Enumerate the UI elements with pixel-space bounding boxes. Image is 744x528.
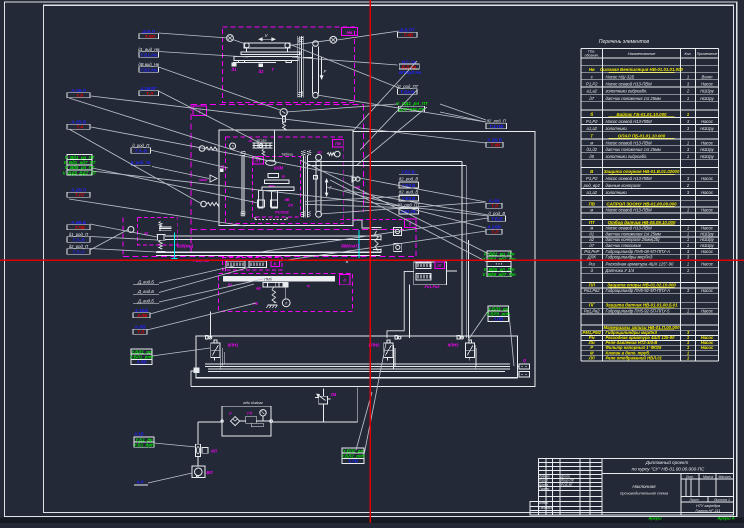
wire leader [360,90,417,150]
svg-text:1: 1 [687,237,689,242]
wire leader [356,392,372,450]
svg-text:дЗ: дЗ [288,204,293,208]
svg-text:д2: д2 [259,69,265,74]
svg-text:У.Б2.В,: У.Б2.В, [401,170,416,175]
crosshair horizontal [0,259,744,261]
svg-text:Л: Л [285,301,287,305]
svg-text:3.ЛВ: 3.ЛВ [493,317,504,322]
svg-text:Р1,Р2: Р1,Р2 [586,176,598,181]
base dashed bracket [255,219,287,221]
wire leader [154,443,196,447]
crosshair vertical [369,0,371,523]
svg-text:Таблиц: Таблиц [281,153,293,157]
svg-text:4.ЛВ: 4.ЛВ [136,313,148,318]
svg-text:Наименование: Наименование [628,51,656,56]
wire leader [69,199,245,226]
wire leader [344,190,488,215]
relay wires [387,271,414,338]
svg-text:Насос НШ-32Б: Насос НШ-32Б [606,74,635,79]
svg-text:Л4: Л4 [330,392,337,397]
svg-text:а2: а2 [589,237,594,242]
svg-text:б: б [590,112,593,117]
inner dashed separator [191,229,404,231]
svg-text:Т.Л: Т.Л [146,91,154,96]
svg-text:данные контроля: данные контроля [606,183,642,188]
svg-text:Аркуш А: Аркуш А [716,516,734,521]
svg-text:Насос: Насос [701,176,714,181]
mount circle [128,227,134,233]
svg-text:Б: Б [282,175,285,179]
label дВ.вид_Нв [138,62,159,72]
relay box Rk1 Rk2 [414,262,447,285]
cylinder blocks row [226,261,245,268]
svg-text:ПВ: ПВ [589,201,596,206]
svg-text:Т.4.ПВ: Т.4.ПВ [489,124,504,129]
svg-text:Т.Б1.Нв: Т.Б1.Нв [140,52,157,57]
rail mount dashed box [137,218,177,245]
svg-text:V_Вд5_вд7_Пт: V_Вд5_вд7_Пт [482,272,515,277]
ground hatch [268,304,278,306]
wire leader [159,266,234,283]
svg-text:датчик положения 1st 25мм: датчик положения 1st 25мм [606,231,661,236]
svg-text:Рв1,Рв2: Рв1,Рв2 [584,308,600,313]
svg-text:м: м [590,226,593,231]
wire leader [69,98,268,161]
svg-text:Ю: Ю [318,150,322,154]
relief valve L4 [315,389,337,422]
tag box d right [405,219,417,228]
junction icon 1 [394,228,402,236]
svg-text:д7: д7 [589,96,594,101]
tank outlet left step [191,371,196,387]
svg-text:Т.3–С: Т.3–С [72,249,85,254]
wire leader [159,67,281,110]
svg-text:Масшт.: Масшт. [719,475,732,479]
comb slide top [253,142,273,144]
label 4.1Б3/Г [139,86,159,96]
inner column pair left [241,155,243,216]
svg-text:ПЛ: ПЛ [589,282,596,287]
tank frame [196,336,518,378]
central unit dashed frame [226,137,344,224]
cylinder blocks dashed enclosure [223,258,283,271]
rail left bracket assembly [159,226,172,228]
svg-text:а1,а2: а1,а2 [587,126,598,131]
svg-text:1: 1 [687,308,689,313]
wire leader [353,61,417,131]
svg-text:Рк1,Рк2: Рк1,Рк2 [425,284,441,289]
label А.ЛВ [486,199,502,209]
svg-text:Гидроцилиндр ПН5-08-5П-ППУ-А: Гидроцилиндр ПН5-08-5П-ППУ-А [606,249,671,254]
svg-text:Насос: Насос [701,140,714,145]
wire leader [300,160,489,254]
svg-text:Рш: Рш [589,262,596,267]
svg-text:1: 1 [687,226,689,231]
svg-text:Отбор датчик НВ-05.09.10.000: Отбор датчик НВ-05.09.10.000 [608,220,676,225]
drop wire 1 [210,312,212,338]
title block [530,459,734,516]
svg-text:Кол.: Кол. [684,52,691,56]
svg-text:ЛЛ: ЛЛ [588,355,595,360]
svg-text:Т.Л: Т.Л [76,93,84,98]
wire leader [159,52,249,58]
svg-text:Л: Л [231,145,233,149]
wire leader [147,303,256,330]
svg-text:РСЛСЕ: РСЛСЕ [275,210,289,215]
wire leader [92,168,258,203]
dashed stub to tag d [340,219,405,221]
svg-text:ОПАЛ ПБ-01.01.10.000: ОПАЛ ПБ-01.01.10.000 [618,133,666,138]
svg-text:Защита опоры НВ-01.02.10.000: Защита опоры НВ-01.02.10.000 [607,282,676,287]
svg-text:Насос: Насос [701,207,714,212]
svg-text:мат: мат [199,178,208,182]
sliding platform (bright) [223,276,334,281]
label А.ЛВ [133,325,147,335]
svg-text:датчик положения 1st 25мм: датчик положения 1st 25мм [606,96,661,101]
svg-text:дВ: дВ [284,198,289,202]
svg-text:аВ: аВ [256,286,261,290]
crank circle left [227,35,234,42]
svg-text:Примечание: Примечание [697,52,718,56]
svg-text:м: м [590,140,593,145]
svg-text:Г: Г [272,67,275,72]
valve B [268,174,279,178]
svg-text:Насос: Насос [701,345,714,350]
svg-text:Наклонная: Наклонная [632,484,656,489]
svg-text:3.ЛВ: 3.ЛВ [137,360,148,365]
svg-text:Т.Б4.В: Т.Б4.В [400,89,415,94]
label У.Б1_др [134,437,155,448]
label А.1Б.П [67,88,90,98]
svg-text:НТУ кафедра: НТУ кафедра [696,504,720,508]
svg-text:1: 1 [687,96,689,101]
svg-text:1: 1 [687,243,689,248]
wire leader [305,197,400,202]
drop link [285,287,287,299]
wire leader [509,314,514,366]
stroke arrow F [326,179,328,196]
damper ellipse [266,160,276,165]
svg-text:1: 1 [687,268,689,273]
wire leader [90,237,158,241]
svg-text:НШ3ру: НШ3ру [700,237,714,242]
svg-text:НШ3ру: НШ3ру [700,126,714,131]
wire leader [159,91,261,143]
svg-text:Гидроцилиндр ПН5-92-5П-ППУ-А: Гидроцилиндр ПН5-92-5П-ППУ-А [606,288,671,293]
svg-text:1: 1 [687,140,689,145]
label stack row У.Б3.В [399,195,419,201]
svg-text:Насос осевой Н13-ПВМ: Насос осевой Н13-ПВМ [606,207,653,212]
svg-text:Масса: Масса [703,475,713,479]
label д1_род_П [67,232,90,242]
svg-text:Насос осевой Н13-ПВМ: Насос осевой Н13-ПВМ [606,140,653,145]
svg-text:Гд: Гд [247,411,252,416]
inner column pair right [302,155,304,217]
filter diamond F [231,417,240,426]
check valve mat [210,175,217,182]
label д2_род_П [486,119,507,129]
svg-text:1: 1 [687,262,689,267]
svg-text:Т.ЛВ: Т.ЛВ [74,225,85,230]
svg-text:НШ3ру: НШ3ру [700,154,714,159]
wire leader [357,107,427,165]
label А.2ЛВ [486,225,502,235]
svg-text:КЛМ: КЛМ [274,166,283,171]
tank left junction [194,368,199,373]
svg-text:НШ3ру: НШ3ру [700,96,714,101]
svg-text:Нв: Нв [347,30,353,35]
svg-text:V_ВД5_ВД7_П7: V_ВД5_ВД7_П7 [63,170,97,175]
svg-text:ГлВерма: ГлВерма [539,506,552,510]
svg-text:обознач.: обознач. [585,54,599,58]
wire leader [364,343,386,455]
svg-text:НШ3ру: НШ3ру [700,243,714,248]
svg-text:д20(мм): д20(мм) [177,244,194,249]
upper slide bar [241,52,300,55]
central unit frame [219,130,353,225]
svg-text:Силовая Вентиляция НВ-01.01.01: Силовая Вентиляция НВ-01.01.01.000 [600,67,684,72]
svg-text:ПГ: ПГ [589,303,595,308]
svg-text:РОБ ВГ: РОБ ВГ [561,483,573,487]
svg-text:ВЛ: ВЛ [207,470,213,475]
svg-text:д80(см7): д80(см7) [341,244,359,249]
svg-text:Т.3–В: Т.3–В [72,237,85,242]
svg-text:1: 1 [687,207,689,212]
svg-text:золотники: золотники [605,190,628,195]
label stack row У.Б2.ПС [399,209,419,215]
tag box d lower [339,274,350,284]
wire leader [320,202,486,214]
spring mount left upper [199,146,205,152]
spring mount left lower [201,201,207,207]
gauge [260,410,266,416]
upper rail [165,235,381,237]
svg-text:Т.Б2.Нв: Т.Б2.Нв [140,67,157,72]
leg right [272,191,278,209]
label У.БЛ1_рп [130,349,154,365]
hose grommet node [280,109,287,116]
svg-text:Защита опорная НВ-01.В.01.0200: Защита опорная НВ-01.В.01.02000 [604,169,680,174]
svg-text:Листов 1: Листов 1 [713,498,730,502]
pump Gd [246,416,257,423]
rail right spring assembly [372,227,382,229]
svg-text:Перечень элементов: Перечень элементов [599,39,650,45]
wire leader [90,224,157,237]
label д_род_В [488,211,506,221]
svg-text:Насос осевой Н13-ПВМ: Насос осевой Н13-ПВМ [606,176,653,181]
svg-text:Лист: Лист [688,498,698,502]
svg-text:Т.4В: Т.4В [490,143,500,148]
wire leader [440,104,486,120]
label У.БЛ2_рп [341,448,365,464]
wire leader [148,473,192,483]
wire down [273,130,275,161]
svg-text:3.ЛВ: 3.ЛВ [348,459,359,464]
lower platform [262,187,294,191]
svg-text:Нв: Нв [589,67,595,72]
wire leader [286,104,398,112]
svg-text:д2_вид_В: д2_вид_В [399,189,419,194]
label д2_род_П [67,244,90,254]
svg-text:НШ3ру: НШ3ру [700,89,714,94]
svg-text:Группа НГ-111: Группа НГ-111 [696,509,721,513]
svg-text:Лит.: Лит. [685,475,694,479]
strainer VL [192,466,213,478]
guide column pair [297,36,299,97]
svg-text:Анвер: Анвер [538,501,548,505]
svg-text:а3: а3 [249,139,253,143]
svg-text:а1,а2: а1,а2 [587,190,598,195]
boundary extension (dashed) [122,218,124,257]
svg-text:а1,а2: а1,а2 [587,89,598,94]
svg-text:д1: д1 [232,67,238,72]
svg-text:д7: д7 [589,243,594,248]
wire leader [90,249,157,253]
svg-text:Т.4В: Т.4В [403,33,413,38]
svg-text:Гидроцилиндры мкрЛнЗ: Гидроцилиндры мкрЛнЗ [606,255,653,260]
label V_Вд1_рп_П7 [63,155,97,176]
svg-text:ЛГ: ЛГ [436,264,442,268]
svg-text:Вент: Вент [702,74,713,79]
wire leader [292,57,398,65]
tag box B small [271,260,280,267]
roller L [230,143,236,149]
svg-text:Т.Л: Т.Л [491,204,499,209]
svg-text:1: 1 [687,154,689,159]
svg-text:д2_род_В: д2_род_В [399,176,419,181]
work platform [234,56,298,60]
label Д.Б.ПТ [398,28,418,38]
svg-text:Гидроцилиндр ПН5-92-5П-ППУ-5: Гидроцилиндр ПН5-92-5П-ППУ-5 [606,308,671,313]
svg-text:род_вр2: род_вр2 [583,183,601,188]
svg-text:Насос осевой Н13-ПВМ: Насос осевой Н13-ПВМ [606,119,653,124]
svg-text:Расходная арматура 4ШХ 125°-90: Расходная арматура 4ШХ 125°-90 [606,262,674,267]
crank links [233,40,246,45]
wire leader [337,31,399,40]
junction icon 2 [394,243,402,251]
label д2_род_ПТ [396,84,418,94]
svg-text:Т: Т [590,133,593,138]
svg-text:Насос: Насос [701,190,714,195]
wire leader [152,348,210,356]
svg-text:БПВрЛ.Чв: БПВрЛ.Чв [399,70,421,75]
svg-text:Р1,Р2: Р1,Р2 [586,119,598,124]
slider RM [264,180,289,184]
bell crank circle [282,299,290,307]
svg-text:Б.Л.Чв: Б.Л.Чв [402,64,417,69]
svg-text:Рst,РнР: Рst,РнР [584,249,599,254]
wire leader [280,231,486,261]
label 4.1БВ [133,308,150,318]
tag box PV [333,139,344,147]
svg-text:Реле отображений НВЛ.01: Реле отображений НВЛ.01 [606,355,663,360]
small port [314,176,318,180]
svg-text:КЛН3: КЛН3 [448,343,459,348]
wire pair to tank [308,161,462,163]
svg-text:Датчики У 1/4: Датчики У 1/4 [605,268,635,273]
wire leader [260,218,488,252]
lift cylinder [313,41,319,47]
assembly boundary Нв (dashed) [223,27,355,103]
svg-text:Дипломный проект: Дипломный проект [645,459,689,465]
svg-text:Насос: Насос [701,226,714,231]
svg-text:датчик положения 1st 25мм: датчик положения 1st 25мм [606,147,661,152]
svg-text:Т.3–В: Т.3–В [135,148,148,153]
label д1_вид_Нв [138,47,160,57]
svg-text:ПТ: ПТ [255,159,261,163]
bottom dark strip [0,518,744,524]
dashed connector [224,261,226,273]
svg-text:по курсу "СУ" НВ-01.00.00.000: по курсу "СУ" НВ-01.00.00.000-ПС [632,467,705,472]
filter unit frame [221,401,273,436]
label А.2Б.В [486,138,503,148]
svg-text:Насос: Насос [701,288,714,293]
inner core dashed frame [253,156,301,217]
step link right [353,220,370,236]
drain header [198,421,222,423]
wire leader [152,167,209,179]
svg-text:производительная схема: производительная схема [620,491,669,496]
wire leader [159,279,263,302]
label stack row У.Б3.В [399,182,419,188]
top roller bar [244,43,290,48]
label д_род_П [131,143,151,153]
svg-text:У.Б1_дрН: У.Б1_дрН [134,443,155,448]
tag box Нв [342,28,358,36]
wire leader [91,127,486,202]
idler circle right [330,36,337,43]
svg-text:Насос: Насос [701,119,714,124]
svg-text:НШ3ру: НШ3ру [700,231,714,236]
valve KLN1 [211,340,239,361]
tag box T [193,106,207,116]
tag box PT [253,157,264,165]
svg-text:Д_вид.Б: Д_вид.Б [137,298,154,303]
lower rail [156,251,381,253]
svg-text:Рв1,Рв2: Рв1,Рв2 [584,288,600,293]
gauge mark cyan 1 [173,233,175,259]
svg-text:Б: Б [274,262,277,266]
wire leader [327,187,486,228]
svg-text:ПТ: ПТ [589,220,595,225]
svg-text:Насос осевой Н13-ПВМ: Насос осевой Н13-ПВМ [606,81,653,86]
valve KLN3 [448,340,475,361]
svg-text:золотники гидроабл.: золотники гидроабл. [605,154,648,159]
svg-text:Р1,Р2: Р1,Р2 [586,81,598,86]
svg-text:Т.Л7: Т.Л7 [75,193,85,198]
svg-text:д1: д1 [589,231,594,236]
svg-text:Т.Л: Т.Л [491,230,499,235]
wire top-right long [191,132,535,387]
svg-text:ДАТЧИК.ПТ: ДАТЧИК.ПТ [398,107,426,112]
svg-text:КЛН1: КЛН1 [228,343,239,348]
roller with spring [335,151,341,157]
svg-text:Т.Л: Т.Л [137,330,145,335]
label V_Вд1_рп_Пт [482,251,515,277]
tank bus lines [205,363,510,365]
wire leader [91,96,486,143]
machine boundary (dashed) [191,104,363,106]
label Д.Б.П [139,29,159,39]
wire leader [440,112,486,122]
wire leader [317,95,486,122]
gauge mark cyan 2 [358,230,360,258]
svg-text:Насос: Насос [701,249,714,254]
svg-text:золотники: золотники [605,126,628,131]
svg-text:НШ3ру: НШ3ру [700,147,714,152]
svg-text:Аркуш: Аркуш [647,516,662,521]
suction pipe [197,422,199,445]
